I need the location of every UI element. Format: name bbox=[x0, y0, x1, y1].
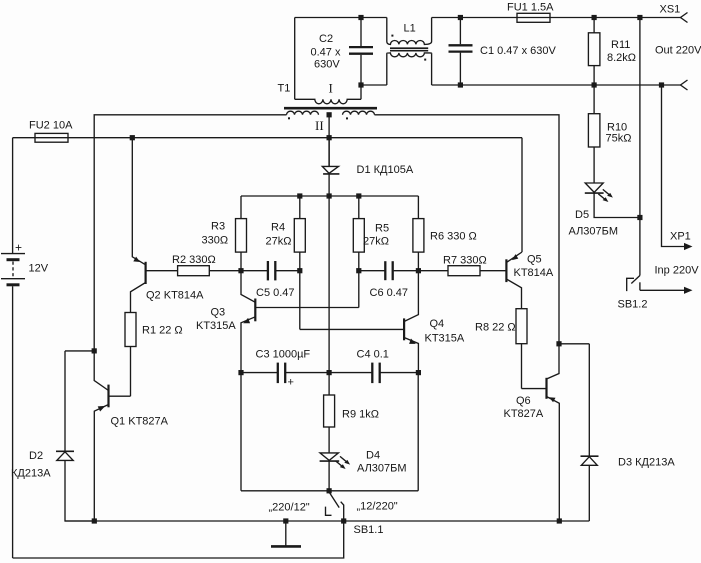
junction R9 top line bbox=[327, 370, 332, 375]
svg-text:L1: L1 bbox=[404, 23, 416, 35]
transistor Q4 bar bbox=[403, 318, 405, 340]
transistor Q5 bar bbox=[505, 259, 507, 282]
battery GB1 positive lead bbox=[12, 138, 14, 254]
inductor L1 top winding bbox=[387, 41, 432, 45]
svg-text:АЛ307БМ: АЛ307БМ bbox=[569, 226, 619, 238]
svg-text:SB1.2: SB1.2 bbox=[618, 299, 648, 311]
resistor R4 bbox=[299, 196, 301, 219]
transistor Q2 bar bbox=[145, 262, 147, 284]
diode D3 lower lead bbox=[588, 465, 590, 521]
svg-text:R5: R5 bbox=[375, 223, 389, 235]
Q2 collector lead bbox=[131, 283, 146, 313]
LED D5 cathode bar bbox=[585, 192, 604, 194]
Q2 emitter arrow bbox=[133, 257, 140, 262]
battery cell 1 long plate bbox=[1, 253, 25, 255]
L1 polarity dot bottom-right bbox=[424, 59, 426, 61]
svg-text:R8 22 Ω: R8 22 Ω bbox=[475, 322, 516, 334]
svg-text:C2: C2 bbox=[319, 33, 333, 45]
diode D2 triangle bbox=[57, 452, 73, 461]
resistor R1 bbox=[125, 313, 136, 347]
svg-text:27kΩ: 27kΩ bbox=[363, 236, 389, 248]
capacitor C6 bbox=[359, 270, 385, 272]
Q1 base lead bbox=[109, 395, 131, 397]
diode D3 triangle bbox=[581, 457, 597, 466]
Q3 collector lead bbox=[241, 271, 255, 303]
socket XS1 upper contact bbox=[681, 13, 688, 23]
T1 polarity dot right bbox=[346, 117, 348, 119]
junction C2 top bbox=[358, 15, 363, 20]
junction R11 bottom bbox=[592, 82, 597, 87]
svg-text:„12/220": „12/220" bbox=[357, 501, 398, 513]
junction Q1 emitter ground rail bbox=[92, 518, 97, 523]
capacitor C5 bbox=[267, 261, 269, 280]
switch SB1.1 alternate contact bbox=[326, 507, 332, 516]
junction D1 rail bbox=[327, 135, 332, 140]
svg-text:KT814A: KT814A bbox=[514, 267, 554, 279]
wire cross-coupling to Q4 base bbox=[300, 328, 404, 330]
capacitor C3 plates bbox=[277, 363, 279, 384]
svg-text:Q3: Q3 bbox=[211, 307, 226, 319]
transformer T1 secondary winding II left group bbox=[287, 111, 319, 115]
LED D4 triangle bbox=[320, 453, 338, 461]
wire L1 upper-right riser bbox=[431, 18, 433, 42]
junction R5 top bbox=[356, 193, 361, 198]
ground symbol bar bbox=[271, 545, 301, 548]
capacitor C1 plates bbox=[449, 44, 473, 46]
wire oscillator top rail bbox=[241, 195, 418, 197]
diode D2 cathode bar bbox=[56, 450, 74, 452]
switch SB1.2 blade bbox=[631, 276, 640, 284]
junction SB1.1 / battery return bbox=[341, 518, 346, 523]
junction D4 bottom / SB1.1 bbox=[327, 488, 332, 493]
wire D4 lower lead bbox=[328, 461, 330, 491]
capacitor C2 plates bbox=[349, 46, 373, 48]
svg-text:R7 330Ω: R7 330Ω bbox=[443, 255, 487, 267]
diode D1 cathode bar bbox=[323, 173, 339, 175]
fuse FU2 bbox=[35, 133, 68, 142]
capacitor C4 plates bbox=[371, 363, 373, 384]
wire Q5 emitter drop from rail bbox=[521, 138, 523, 252]
Q6 emitter lead bbox=[547, 397, 560, 522]
junction D5 to SB1.2 bbox=[637, 215, 642, 220]
wire D3 upper lead bbox=[588, 344, 590, 456]
resistor R6 bbox=[417, 196, 419, 219]
wire emitter line segment 1 bbox=[241, 372, 277, 374]
transformer T1 core bbox=[284, 107, 377, 110]
svg-text:II: II bbox=[315, 118, 324, 133]
svg-text:Q1 KT827A: Q1 KT827A bbox=[111, 416, 169, 428]
svg-text:Q6: Q6 bbox=[516, 395, 531, 407]
svg-text:FU1 1.5A: FU1 1.5A bbox=[507, 2, 554, 14]
wire D2 branch horizontal bbox=[65, 350, 94, 352]
transformer T1 secondary winding II right group bbox=[343, 111, 375, 115]
svg-text:C4 0.1: C4 0.1 bbox=[357, 348, 389, 360]
wire XS1 top junction down to SB1.2 bbox=[639, 18, 641, 276]
plug XP1 pin 1 bbox=[662, 85, 686, 247]
Q6 emitter arrow bbox=[549, 397, 556, 402]
svg-text:630V: 630V bbox=[314, 58, 340, 70]
svg-text:D3 КД213А: D3 КД213А bbox=[618, 457, 675, 469]
Q1 emitter lead bbox=[94, 405, 108, 522]
switch SB1.1 blade bbox=[329, 492, 339, 508]
junction Q4 emitter line bbox=[416, 370, 421, 375]
svg-text:C1 0.47 x 630V: C1 0.47 x 630V bbox=[480, 45, 556, 57]
wire cross-coupling to Q3 base bbox=[255, 307, 358, 309]
junction node D R6 bottom bbox=[416, 268, 421, 273]
transistor Q6 bar bbox=[545, 378, 547, 399]
Q4 collector lead bbox=[404, 271, 418, 322]
inductor L1 core lines bbox=[390, 47, 428, 49]
junction Q6 collector / D3 bbox=[556, 341, 561, 346]
junction Q2 emitter rail bbox=[130, 135, 135, 140]
Q4 emitter arrow bbox=[409, 339, 416, 344]
socket XS1 lower contact bbox=[681, 80, 688, 90]
switch SB1.2 alternate contact bbox=[627, 278, 634, 291]
L1 polarity dot top-left bbox=[391, 35, 393, 37]
junction C2 bottom bbox=[358, 82, 363, 87]
svg-text:Q5: Q5 bbox=[527, 254, 542, 266]
junction ground symbol bbox=[283, 518, 288, 523]
svg-text:D1 КД105А: D1 КД105А bbox=[357, 164, 414, 176]
fuse FU1 bbox=[517, 13, 550, 22]
Q5 emitter arrow bbox=[512, 254, 518, 260]
resistor R11 bbox=[593, 18, 595, 33]
resistor R7 bbox=[448, 266, 480, 276]
transformer T1 primary winding I bbox=[295, 99, 361, 104]
svg-text:КД213А: КД213А bbox=[11, 468, 51, 480]
Q5 emitter lead bbox=[506, 252, 522, 263]
T1 polarity dot left bbox=[288, 117, 290, 119]
wire L1 lower-left riser bbox=[386, 53, 388, 85]
svg-text:D4: D4 bbox=[366, 450, 380, 462]
wire bottom rail bbox=[13, 521, 344, 558]
ground symbol stem bbox=[285, 521, 287, 546]
svg-text:+: + bbox=[288, 377, 294, 389]
svg-text:330Ω: 330Ω bbox=[202, 234, 229, 246]
svg-text:D5: D5 bbox=[575, 209, 589, 221]
svg-text:12V: 12V bbox=[29, 263, 49, 275]
wire ground rail bbox=[65, 520, 589, 522]
Q1 emitter arrow bbox=[98, 406, 106, 412]
svg-text:XP1: XP1 bbox=[670, 231, 691, 243]
LED D4 cathode bar bbox=[320, 460, 340, 462]
junction XS1 branch top bbox=[637, 15, 642, 20]
resistor R3 bbox=[240, 196, 242, 219]
wire cross-coupling R5 node down bbox=[358, 271, 360, 308]
wire Q6 collector node to D3 bbox=[559, 343, 589, 345]
svg-text:C6 0.47: C6 0.47 bbox=[370, 287, 409, 299]
wire top rail left (C2 loop top) bbox=[295, 17, 387, 19]
battery cell 1 short plate bbox=[7, 258, 20, 261]
capacitor C1 vertical leads bbox=[459, 18, 461, 45]
svg-text:R3: R3 bbox=[211, 221, 225, 233]
Q6 collector lead bbox=[547, 342, 560, 379]
junction D1 bottom rail bbox=[327, 193, 332, 198]
wire T1 center tap down bbox=[328, 115, 330, 167]
svg-text:8.2kΩ: 8.2kΩ bbox=[607, 52, 636, 64]
svg-text:T1: T1 bbox=[278, 83, 291, 95]
junction R4 top bbox=[297, 193, 302, 198]
svg-text:27kΩ: 27kΩ bbox=[266, 235, 292, 247]
svg-text:SB1.1: SB1.1 bbox=[354, 524, 384, 536]
svg-text:АЛ307БМ: АЛ307БМ bbox=[357, 463, 407, 475]
junction node B R4 bottom bbox=[297, 268, 302, 273]
diode D1 lead upper bbox=[328, 138, 330, 167]
wire L1 lower-right riser bbox=[431, 53, 433, 85]
svg-text:R1 22 Ω: R1 22 Ω bbox=[142, 325, 183, 337]
wire secondary rail right bbox=[375, 115, 560, 342]
switch SB1.1 contact lead bbox=[341, 502, 344, 521]
junction node C R5 bottom bbox=[356, 268, 361, 273]
svg-text:R4: R4 bbox=[271, 222, 285, 234]
inductor L1 bottom winding bbox=[387, 53, 432, 57]
wire top rail right (L1 to XS1) bbox=[432, 17, 681, 19]
battery cell 2 short plate bbox=[7, 283, 20, 286]
resistor R2 bbox=[145, 270, 177, 272]
LED D5 emission arrows bbox=[598, 194, 605, 200]
svg-text:KT315A: KT315A bbox=[196, 320, 236, 332]
Q5 collector lead bbox=[506, 279, 521, 309]
wire D1 to R9 center vertical bbox=[328, 174, 330, 395]
svg-text:KT827A: KT827A bbox=[504, 408, 544, 420]
Q2 emitter lead bbox=[132, 138, 145, 265]
wire R8 to Q6 base bbox=[522, 388, 547, 390]
LED D5 triangle bbox=[585, 183, 603, 192]
svg-text:D2: D2 bbox=[29, 450, 43, 462]
switch SB1.2 contact lead bbox=[639, 282, 641, 290]
svg-text:C3 1000µF: C3 1000µF bbox=[256, 348, 311, 360]
svg-text:R9 1kΩ: R9 1kΩ bbox=[342, 409, 379, 421]
svg-text:+: + bbox=[15, 241, 22, 255]
transistor Q3 bar bbox=[254, 299, 256, 322]
junction R11 top bbox=[592, 15, 597, 20]
resistor R9 bbox=[324, 395, 335, 427]
junction Q6 emitter ground rail bbox=[557, 518, 562, 523]
wire output bottom rail right (L1 to XS1) bbox=[432, 84, 681, 86]
wire emitter line segment 3 bbox=[381, 372, 419, 374]
resistor R5 bbox=[358, 196, 360, 219]
wire emitter line segment 2 bbox=[286, 372, 372, 374]
junction C1 bottom bbox=[458, 82, 463, 87]
svg-text:I: I bbox=[329, 80, 333, 95]
wire D5 lower lead bbox=[594, 193, 640, 217]
svg-text:XS1: XS1 bbox=[660, 4, 681, 16]
svg-text:Out 220V: Out 220V bbox=[655, 45, 701, 57]
diode D3 cathode bar bbox=[581, 455, 599, 457]
svg-text:„220/12": „220/12" bbox=[269, 502, 310, 514]
wire D2 upper lead bbox=[64, 351, 66, 451]
wire cross-coupling R4 node down bbox=[299, 271, 301, 330]
junction Q3 emitter line bbox=[238, 370, 243, 375]
battery dashed link bbox=[12, 262, 14, 278]
junction node A R3 bottom bbox=[238, 268, 243, 273]
Q3 emitter lead bbox=[241, 317, 255, 491]
transistor Q1 bar bbox=[107, 385, 109, 408]
Q4 emitter lead bbox=[404, 338, 418, 373]
Q1 collector lead bbox=[94, 349, 108, 391]
svg-text:Q4: Q4 bbox=[430, 318, 445, 330]
wire oscillator box bottom line bbox=[241, 490, 418, 492]
junction C1 top bbox=[458, 15, 463, 20]
svg-text:Inp 220V: Inp 220V bbox=[655, 265, 700, 277]
battery cell 2 long plate bbox=[1, 278, 25, 280]
junction Q1 collector / D2 bbox=[92, 348, 97, 353]
LED D4 emission arrows bbox=[336, 461, 343, 467]
wire oscillator box right vertical bbox=[417, 373, 419, 491]
diode D1 triangle bbox=[322, 166, 338, 173]
svg-text:R2 330Ω: R2 330Ω bbox=[172, 254, 216, 266]
wire output bottom rail left (C2 to L1) bbox=[361, 84, 387, 86]
plug XP1 pin 2 bbox=[640, 289, 686, 291]
svg-text:C5 0.47: C5 0.47 bbox=[256, 287, 295, 299]
capacitor C2 vertical leads bbox=[360, 18, 362, 47]
svg-text:FU2 10A: FU2 10A bbox=[29, 120, 73, 132]
svg-text:R6 330 Ω: R6 330 Ω bbox=[430, 230, 477, 242]
resistor R8 bbox=[516, 309, 527, 344]
wire L1 upper-left riser bbox=[386, 18, 388, 42]
transformer T1 primary riser left bbox=[294, 18, 296, 100]
battery negative lead bbox=[12, 286, 14, 558]
junction T1 center tap bbox=[327, 112, 332, 117]
resistor R10 bbox=[593, 85, 595, 114]
diode D2 lower lead bbox=[65, 460, 94, 521]
wire +12V rail bbox=[13, 137, 522, 139]
svg-text:Q2 KT814A: Q2 KT814A bbox=[146, 290, 204, 302]
Q3 emitter arrow bbox=[243, 318, 250, 323]
wire secondary rail left bbox=[94, 115, 286, 349]
svg-text:75kΩ: 75kΩ bbox=[606, 132, 632, 144]
svg-text:R11: R11 bbox=[611, 39, 630, 51]
junction XP1 pin1 top bbox=[659, 82, 664, 87]
svg-text:0.47 x: 0.47 x bbox=[311, 47, 341, 59]
svg-text:KT315A: KT315A bbox=[425, 333, 465, 345]
